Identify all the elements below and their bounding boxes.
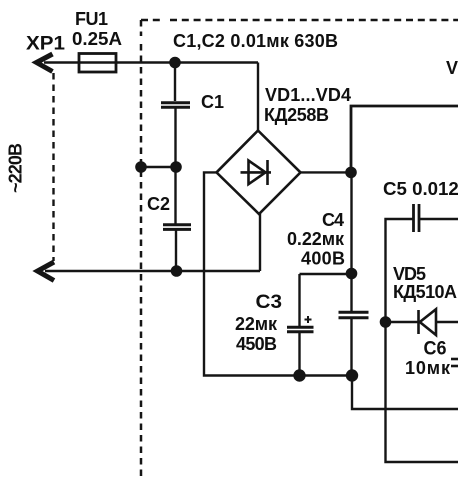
wire: bridge minus output down and along minus rail	[204, 172, 352, 375]
wire: bridge bottom AC lead	[259, 214, 261, 272]
screen boundary dashed horizontal	[141, 19, 458, 22]
svg-text:C5 0.012мк: C5 0.012мк	[383, 179, 458, 199]
connector XP1 pin 2 arrow	[38, 262, 55, 281]
junction: VD5 tap	[381, 317, 390, 326]
wire: bottom AC line from XP1 to bridge	[45, 270, 260, 272]
svg-text:C4: C4	[322, 210, 344, 230]
svg-text:C2: C2	[147, 194, 170, 214]
svg-text:0.25A: 0.25A	[72, 28, 122, 49]
svg-text:22мк: 22мк	[235, 314, 278, 334]
wire: minus rail down and right to edge	[352, 376, 458, 410]
junction: C2 tap on bottom AC line	[172, 266, 181, 275]
svg-text:C3: C3	[256, 291, 283, 313]
junction: C3 tap on plus rail	[347, 269, 356, 278]
capacitor C2	[163, 225, 191, 230]
capacitor C4	[339, 312, 369, 318]
diode bridge VD1...VD4	[217, 131, 301, 215]
wire: C3 branch horizontal	[300, 273, 352, 275]
svg-text:400В: 400В	[301, 249, 345, 269]
svg-text:C1,C2 0.01мк 630В: C1,C2 0.01мк 630В	[173, 31, 338, 51]
wire: C3 bottom lead	[298, 333, 300, 376]
wire: C5 branch left lead	[386, 219, 458, 462]
svg-text:КД510А: КД510А	[393, 282, 457, 302]
dashed connector body XP1	[52, 73, 54, 261]
wire: stub from midpoint to screen boundary	[141, 166, 176, 168]
wire: bridge plus output to the right	[301, 171, 352, 173]
wire: C1 top lead	[174, 63, 176, 102]
wire: VD5 cathode lead	[386, 321, 418, 323]
svg-text:FU1: FU1	[75, 9, 108, 29]
svg-text:10мк: 10мк	[405, 358, 451, 378]
wire: plus rail up and right to edge	[351, 106, 458, 172]
wire: C5 right lead to edge	[420, 218, 458, 220]
wire: plus rail down to C4	[350, 172, 352, 311]
svg-text:КД258В: КД258В	[264, 105, 329, 125]
capacitor C1	[161, 103, 190, 107]
svg-text:~220В: ~220В	[6, 143, 26, 193]
junction: plus node	[346, 168, 355, 177]
svg-text:C1: C1	[201, 92, 224, 112]
wire: C4 bottom lead	[350, 319, 352, 376]
polarity mark + of C3	[305, 316, 312, 323]
capacitor C5	[414, 204, 420, 232]
wire: C3 top lead	[298, 274, 300, 326]
screen boundary dashed vertical	[140, 20, 143, 477]
capacitor C3	[287, 327, 314, 331]
wire: top AC line from XP1 through FU1 to bridge	[44, 61, 258, 63]
junction: C3 on minus rail	[295, 371, 305, 381]
svg-text:VD: VD	[446, 58, 458, 78]
fuse FU1	[79, 54, 116, 73]
svg-text:VD1...VD4: VD1...VD4	[265, 85, 351, 105]
connector XP1 pin 1 arrow	[37, 54, 53, 72]
svg-text:0.22мк: 0.22мк	[287, 229, 345, 249]
wire: VD5 anode lead to edge	[436, 321, 458, 323]
wire: C1 to C2 vertical	[174, 108, 176, 224]
junction: C1 tap on top AC line	[170, 58, 179, 67]
svg-text:450В: 450В	[236, 334, 277, 354]
wire: C2 bottom lead	[175, 231, 177, 272]
svg-text:C6: C6	[424, 339, 447, 360]
junction: on screen dashed boundary	[136, 162, 145, 171]
junction: minus rail corner node	[347, 371, 357, 381]
junction: C1-C2 midpoint	[171, 162, 180, 171]
svg-text:VD5: VD5	[393, 264, 426, 284]
diode VD5	[419, 309, 437, 335]
capacitor C6 (cut off at edge)	[451, 359, 458, 366]
svg-text:ХР1: ХР1	[26, 34, 65, 55]
wire: bridge top AC lead	[257, 63, 259, 132]
